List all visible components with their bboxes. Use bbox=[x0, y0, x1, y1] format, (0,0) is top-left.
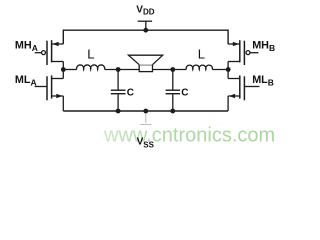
junction C2 top bbox=[170, 67, 175, 72]
svg-text:www.cntronics.com: www.cntronics.com bbox=[103, 125, 275, 147]
junction C1 bottom bbox=[116, 109, 121, 114]
svg-text:C: C bbox=[181, 88, 188, 99]
junction C1 top bbox=[116, 67, 121, 72]
capacitor C1 bbox=[111, 70, 126, 112]
inductor L1 bbox=[77, 65, 105, 70]
speaker LS1 bbox=[129, 55, 163, 71]
wire VDD stub bbox=[145, 21, 147, 30]
wire speaker to L2 bbox=[153, 69, 187, 71]
transistor MH_B (PMOS) bbox=[228, 40, 258, 69]
wire top rail VDD bbox=[63, 30, 228, 44]
wire L1 to speaker bbox=[105, 69, 140, 71]
inductor L2 bbox=[186, 65, 212, 69]
power VDD tick bbox=[138, 20, 152, 22]
wire bottom rail VSS bbox=[63, 110, 228, 112]
wire L2 to node B bbox=[212, 69, 228, 71]
transistor MH_A (PMOS) bbox=[35, 40, 64, 69]
transistor ML_B (NMOS) bbox=[228, 70, 259, 112]
wire node A to L1 bbox=[63, 69, 76, 71]
svg-text:L: L bbox=[198, 47, 205, 62]
capacitor C2 bbox=[166, 70, 181, 112]
transistor ML_A (NMOS) bbox=[35, 70, 64, 112]
junction VDD / top rail bbox=[143, 28, 148, 33]
junction node B bbox=[226, 67, 231, 72]
junction VSS bbox=[143, 109, 148, 114]
svg-text:L: L bbox=[87, 47, 94, 62]
power VSS stub and tick bbox=[140, 111, 152, 125]
junction node A bbox=[61, 67, 66, 72]
svg-text:C: C bbox=[127, 88, 134, 99]
junction C2 bottom bbox=[170, 109, 175, 114]
